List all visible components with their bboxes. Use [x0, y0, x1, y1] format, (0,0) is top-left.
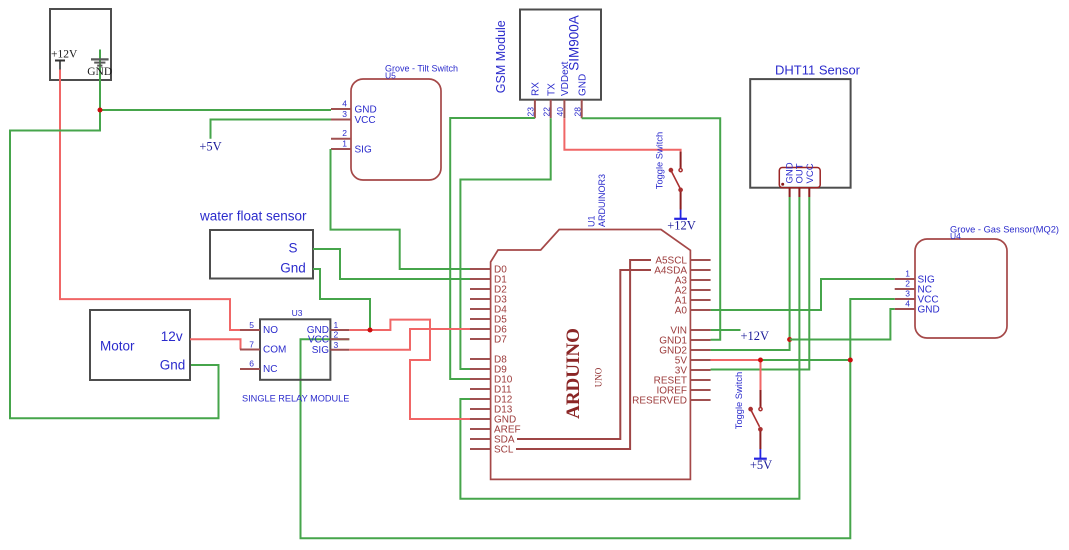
Arduino pin A2	[675, 286, 711, 297]
wire Arduino 5V to toggle S2	[711, 360, 761, 390]
svg-text:2: 2	[334, 330, 339, 340]
gas sensor pin 3 VCC	[895, 289, 939, 306]
wire +5V to tilt VCC	[211, 120, 332, 139]
relay pin 2 VCC	[308, 330, 349, 346]
tilt switch pin 1 SIG	[331, 139, 372, 156]
relay pin 5 NO	[240, 320, 278, 336]
node relay GND junction	[368, 328, 373, 333]
svg-text:UNO: UNO	[594, 367, 604, 387]
svg-text:3: 3	[905, 289, 910, 299]
svg-text:12v: 12v	[161, 329, 183, 344]
svg-text:Toggle Switch: Toggle Switch	[734, 372, 744, 429]
+5V supply symbol	[199, 140, 221, 154]
wire gas GND to GND1 rail	[790, 309, 895, 340]
tilt switch pin 3 VCC	[331, 109, 376, 126]
Arduino pin VIN	[670, 326, 710, 337]
wire DHT OUT to Arduino D12	[460, 197, 799, 499]
svg-text:U5: U5	[385, 71, 396, 81]
svg-text:S: S	[288, 241, 297, 256]
gas sensor U4 box	[915, 225, 1059, 339]
svg-text:1: 1	[334, 320, 339, 330]
svg-text:Gnd: Gnd	[280, 261, 306, 276]
wire Arduino VIN to +12V	[711, 329, 741, 331]
svg-text:Toggle Switch: Toggle Switch	[655, 132, 665, 189]
svg-text:1: 1	[342, 139, 347, 149]
svg-text:U1: U1	[587, 215, 597, 227]
svg-text:28: 28	[572, 107, 582, 117]
wire motor 12v to relay COM	[190, 339, 241, 349]
Arduino pin D13	[470, 405, 513, 416]
svg-text:23: 23	[526, 107, 536, 117]
node 5V toggle junction	[758, 358, 763, 363]
wire GSM VDDext to toggle switch S1	[564, 118, 680, 151]
power supply box	[50, 9, 111, 80]
svg-text:Motor: Motor	[100, 339, 135, 354]
water float sensor box	[199, 209, 313, 279]
svg-text:SIG: SIG	[312, 345, 329, 356]
Arduino pin IOREF	[656, 386, 710, 397]
+12V supply symbol at S1	[667, 210, 696, 233]
gas sensor pin 1 SIG	[895, 269, 935, 286]
node DHT GND junction on GND1 rail	[787, 337, 792, 342]
GSM module box	[494, 10, 601, 100]
svg-text:VCC: VCC	[308, 335, 329, 346]
DHT11 inner part	[779, 162, 820, 197]
svg-text:U3: U3	[292, 308, 303, 318]
svg-text:GSM Module: GSM Module	[494, 20, 508, 93]
svg-text:GND: GND	[918, 305, 940, 316]
svg-text:ARDUINO: ARDUINO	[563, 328, 584, 419]
svg-text:5: 5	[249, 320, 254, 330]
svg-text:Gnd: Gnd	[160, 358, 186, 373]
svg-text:+12V: +12V	[741, 329, 770, 343]
Arduino pin 3V	[675, 366, 711, 377]
wire GSM TX to Arduino D9	[460, 118, 550, 369]
DHT11 sensor box	[750, 63, 860, 188]
Arduino pin GND2	[659, 346, 710, 357]
svg-text:COM: COM	[263, 345, 286, 356]
svg-text:4: 4	[342, 99, 347, 109]
wire gas SIG to Arduino A0	[711, 279, 895, 310]
tilt switch pin 4 GND	[331, 99, 377, 116]
svg-text:40: 40	[555, 107, 565, 117]
wire relay GND to Arduino GND	[349, 320, 470, 419]
tilt switch U5 box	[351, 64, 458, 181]
node GND junction	[98, 108, 103, 113]
svg-text:3: 3	[342, 109, 347, 119]
Arduino pin D8	[470, 355, 507, 366]
svg-text:Grove - Gas Sensor(MQ2): Grove - Gas Sensor(MQ2)	[950, 225, 1059, 235]
Arduino pin GND	[470, 415, 516, 426]
svg-text:ARDUINOR3: ARDUINOR3	[597, 174, 607, 227]
GSM pin 22 TX	[541, 83, 557, 118]
Arduino pin 5V	[675, 356, 711, 367]
wire GND to tilt switch GND	[100, 109, 331, 111]
Arduino pin AREF	[470, 425, 521, 436]
svg-text:2: 2	[342, 128, 347, 138]
wire float Gnd to GND junction	[313, 269, 370, 330]
svg-text:GND: GND	[87, 66, 112, 78]
relay pin 3 SIG	[312, 340, 350, 356]
wire SDA to A4SDA	[517, 270, 651, 439]
wire DHT VCC to Arduino 3V	[711, 197, 810, 370]
wire GSM RX to Arduino D10	[450, 118, 535, 379]
svg-text:3: 3	[334, 340, 339, 350]
svg-text:1: 1	[905, 269, 910, 279]
tilt switch pin 2	[331, 128, 351, 139]
node 5V gas VCC junction	[848, 358, 853, 363]
Arduino U1 outline	[491, 174, 691, 479]
svg-text:+12V: +12V	[667, 219, 696, 233]
Arduino pin D1	[470, 275, 507, 286]
GSM pin 28 GND	[572, 74, 588, 118]
Arduino pin D9	[470, 365, 507, 376]
wire gas VCC to 5V rail and relay VCC	[301, 299, 895, 538]
motor box	[90, 310, 190, 380]
svg-text:D7: D7	[494, 335, 507, 346]
svg-text:NO: NO	[263, 325, 278, 336]
wire relay SIG to Arduino D6	[349, 329, 470, 350]
Arduino pin SDA	[470, 435, 515, 446]
relay pin 1 GND	[307, 320, 350, 336]
wire tilt SIG to Arduino D0	[331, 149, 471, 269]
Arduino pin A5SCL	[655, 256, 710, 267]
Arduino pin D0	[470, 265, 507, 276]
Arduino pin D3	[470, 295, 507, 306]
Arduino pin A1	[675, 296, 711, 307]
svg-text:7: 7	[249, 340, 254, 350]
Arduino pin D6	[470, 325, 507, 336]
svg-text:SIG: SIG	[355, 145, 372, 156]
Arduino pin D12	[470, 395, 513, 406]
+12V supply symbol at VIN	[741, 329, 770, 343]
svg-text:SINGLE RELAY MODULE: SINGLE RELAY MODULE	[242, 394, 349, 404]
wire GSM GND to Arduino GND1 rail	[582, 118, 721, 340]
Arduino pin A4SDA	[654, 266, 710, 277]
svg-text:NC: NC	[263, 364, 277, 375]
Arduino pin D2	[470, 285, 507, 296]
svg-text:4: 4	[905, 299, 910, 309]
svg-text:+5V: +5V	[750, 458, 772, 472]
svg-text:RESERVED: RESERVED	[632, 396, 687, 407]
svg-text:GND: GND	[577, 74, 588, 96]
toggle switch S2	[734, 372, 762, 449]
svg-text:+5V: +5V	[199, 140, 221, 154]
Arduino pin D4	[470, 305, 507, 316]
svg-text:VCC: VCC	[805, 163, 816, 183]
svg-text:GND: GND	[355, 105, 377, 116]
svg-text:DHT11 Sensor: DHT11 Sensor	[775, 63, 861, 78]
Arduino pin A3	[675, 276, 711, 287]
wire 5V rail green segment	[761, 359, 851, 361]
svg-text:SCL: SCL	[494, 445, 514, 456]
Arduino pin RESERVED	[632, 396, 710, 407]
svg-text:U4: U4	[950, 231, 961, 241]
relay pin 7 COM	[240, 340, 286, 356]
Arduino pin RESET	[654, 376, 711, 387]
Arduino pin SCL	[470, 445, 514, 456]
Arduino pin D7	[470, 335, 507, 346]
gas sensor pin 2 NC	[895, 279, 932, 296]
wire GND loop to motor Gnd	[10, 110, 219, 418]
Arduino pin D11	[470, 385, 512, 396]
+5V supply symbol at S2	[750, 449, 772, 472]
svg-text:RX: RX	[531, 82, 542, 96]
relay pin 6 NC	[240, 359, 277, 376]
toggle switch S1	[655, 132, 683, 210]
wire DHT GND to Arduino GND2	[711, 197, 790, 350]
svg-text:water float sensor: water float sensor	[199, 209, 307, 224]
wire float S to Arduino D1	[313, 249, 470, 279]
svg-text:+12V: +12V	[51, 48, 78, 60]
+12V supply symbol	[51, 48, 78, 69]
Arduino pin GND1	[659, 336, 710, 347]
svg-text:6: 6	[249, 359, 254, 369]
relay module U3 box	[242, 308, 349, 404]
Arduino pin D5	[470, 315, 507, 326]
svg-text:OUT: OUT	[794, 163, 805, 183]
svg-text:VDDext: VDDext	[560, 61, 571, 96]
svg-text:TX: TX	[546, 83, 557, 96]
GSM pin 40 VDDext	[555, 61, 571, 118]
GSM pin 23 RX	[526, 82, 542, 118]
wire +12V to relay NO	[60, 70, 240, 331]
Arduino pin A0	[675, 306, 711, 317]
svg-text:A0: A0	[675, 306, 688, 317]
gas sensor pin 4 GND	[895, 299, 940, 316]
svg-text:2: 2	[905, 279, 910, 289]
svg-text:22: 22	[541, 107, 551, 117]
svg-text:VCC: VCC	[355, 115, 376, 126]
Arduino pin D10	[470, 375, 513, 386]
ground symbol GND	[87, 50, 112, 111]
svg-text:Grove - Tilt Switch: Grove - Tilt Switch	[385, 64, 458, 74]
wire SCL to A5SCL	[516, 260, 651, 449]
